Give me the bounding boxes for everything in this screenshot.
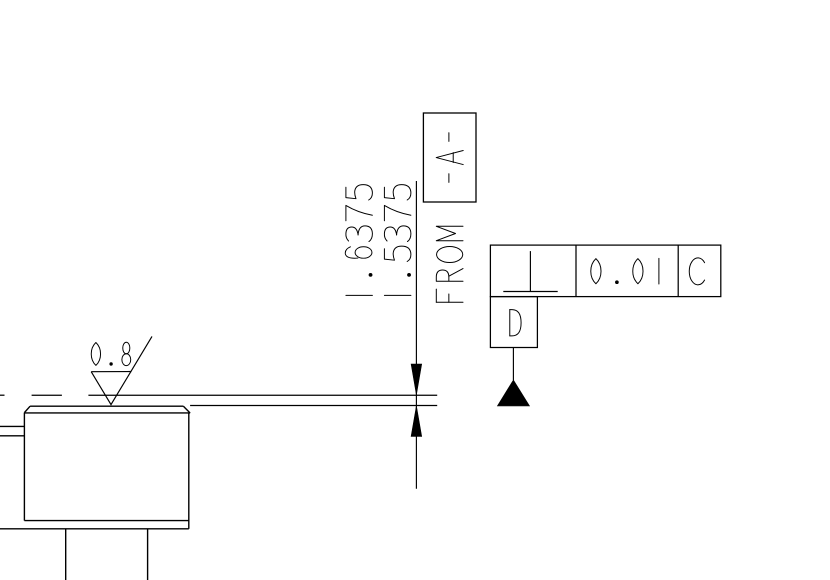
upper dimension arrowhead [411,364,422,395]
pad right chamfer [183,406,190,413]
datum D box [490,297,537,348]
right leg line [147,529,149,580]
dimension value 1.6375 [345,185,372,296]
tolerance value 0.01 [591,258,659,284]
datum feature solid triangle [497,380,529,406]
flange top line [24,520,188,522]
datum letter D [510,310,521,336]
pad left chamfer [24,406,30,412]
base plate line [0,528,189,530]
surface roughness value 0.8 [91,342,130,365]
perpendicularity symbol [503,251,557,291]
mating notch line lower [0,435,24,437]
mating notch line upper [0,425,24,427]
surface finish symbol [91,336,152,404]
pad top edge [30,405,183,407]
datum centerline long segment [88,394,437,396]
lower dimension arrowhead [411,406,422,437]
datum centerline dashes [0,394,62,396]
datum label -A- [436,133,463,183]
dimension value 1.5375 [384,185,411,296]
body left edge [23,413,25,521]
datum reference C [689,258,704,285]
label FROM [436,226,463,302]
body right edge [188,413,190,529]
datum -A- box [423,113,476,202]
left leg line [65,529,67,580]
body top edge [24,412,190,414]
vertical dimension line [415,181,417,489]
datum leader line [512,348,514,381]
feature control frame [490,245,720,297]
top surface extension line [190,405,437,407]
